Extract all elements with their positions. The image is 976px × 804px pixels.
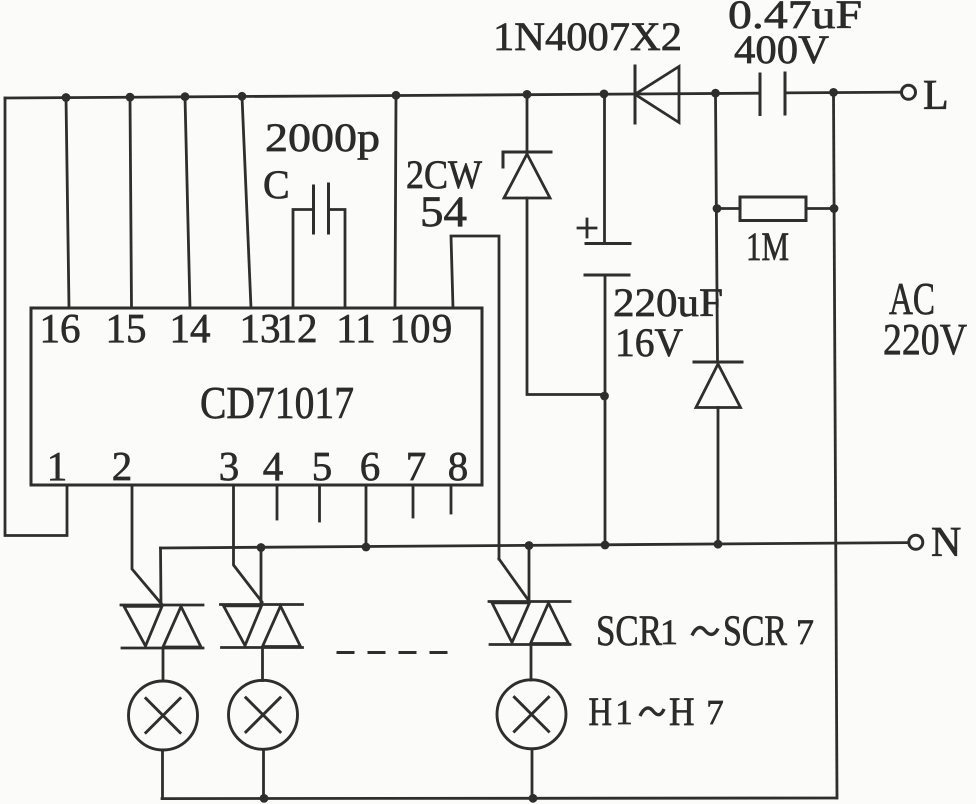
wire pin 4 stub bbox=[276, 485, 279, 519]
node dot zener C2 join bbox=[600, 392, 609, 401]
svg-text:1: 1 bbox=[660, 612, 678, 652]
lamp H2 bbox=[229, 680, 298, 749]
wire resistor R1 right lead bbox=[806, 207, 834, 210]
capacitor C2 220uF top plate bbox=[586, 242, 630, 245]
wire pin 15 to rail bbox=[130, 97, 132, 308]
wire triac 3 to N line bbox=[528, 545, 531, 602]
wire pin 6 to N line bbox=[365, 485, 368, 547]
wire pin 9 hook to triac 3 gate bbox=[451, 236, 499, 559]
terminal L circle bbox=[902, 85, 916, 99]
node dot bottom lamp3 bbox=[529, 794, 538, 803]
terminal N circle bbox=[909, 535, 923, 549]
svg-text:1M: 1M bbox=[746, 224, 789, 269]
node dot rail pin13 bbox=[238, 92, 247, 101]
resistor R1 1M body bbox=[740, 197, 806, 221]
svg-text:15: 15 bbox=[106, 305, 147, 351]
svg-text:220V: 220V bbox=[883, 315, 967, 364]
wire zener bottom to node bbox=[527, 198, 604, 395]
svg-text:400V: 400V bbox=[734, 27, 829, 72]
diode VD3 cathode bar bbox=[694, 361, 742, 364]
wire pin 7 stub bbox=[412, 485, 415, 517]
svg-text:16V: 16V bbox=[615, 320, 683, 365]
wire N line corner down to triac 1 bbox=[159, 548, 162, 605]
wire left feedback loop from rail to pin 1 bbox=[5, 98, 67, 536]
svg-text:1N4007X2: 1N4007X2 bbox=[493, 14, 682, 59]
IC U1 CD71017 body bbox=[31, 308, 482, 485]
wire lamp 1 to bottom rail bbox=[161, 750, 164, 799]
wire resistor R1 left lead bbox=[717, 207, 740, 210]
node dot rail C2 bbox=[600, 90, 609, 99]
svg-text:6: 6 bbox=[360, 443, 381, 489]
lamp H7 bbox=[497, 680, 566, 749]
wire bottom rail bbox=[162, 797, 837, 800]
triac SCR2 bbox=[221, 605, 303, 648]
svg-text:16: 16 bbox=[40, 305, 81, 351]
svg-text:14: 14 bbox=[170, 305, 211, 351]
zener diode VD1 2CW54 cathode bar bbox=[503, 152, 551, 167]
node dot rail pin14 bbox=[181, 92, 190, 101]
wire pin 13 to rail bbox=[242, 96, 251, 308]
svg-text:11: 11 bbox=[336, 305, 375, 351]
lamp H1 bbox=[129, 681, 198, 750]
svg-text:N: N bbox=[931, 520, 961, 566]
wire pin 14 to rail bbox=[185, 97, 190, 308]
svg-text:10: 10 bbox=[390, 305, 431, 351]
diode VD3 triangle bbox=[696, 364, 741, 408]
wire pin 8 stub bbox=[450, 485, 453, 513]
wire diode VD3 to N line bbox=[717, 408, 720, 546]
svg-text:SCR: SCR bbox=[596, 608, 662, 655]
svg-text:2000p: 2000p bbox=[265, 115, 380, 160]
diode VD2 1N4007 triangle bbox=[635, 67, 679, 123]
wire pin 12 to capacitor C bbox=[293, 210, 313, 309]
node dot N pin6 bbox=[362, 543, 371, 552]
wire rail to capacitor C2 bbox=[603, 94, 606, 243]
svg-text:7: 7 bbox=[706, 693, 724, 732]
capacitor C2 220uF bottom plate bbox=[585, 274, 629, 277]
svg-text:13: 13 bbox=[240, 305, 281, 351]
capacitor C2 polarity plus sign bbox=[578, 219, 596, 237]
svg-text:220uF: 220uF bbox=[613, 280, 723, 325]
svg-text:7: 7 bbox=[406, 443, 427, 489]
svg-text:3: 3 bbox=[219, 443, 240, 489]
wire pin 3 to triac 2 gate bbox=[234, 485, 263, 602]
node dot N VD3 bbox=[714, 540, 723, 549]
capacitor C3 0.47uF plates bbox=[759, 74, 762, 115]
wire rail to zener VD1 bbox=[526, 95, 529, 153]
svg-text:H: H bbox=[669, 689, 695, 734]
wire lamp 2 to bottom rail bbox=[262, 750, 265, 799]
wire triac 2 to lamp 2 bbox=[261, 648, 264, 681]
svg-text:C: C bbox=[263, 162, 290, 207]
wire pin 2 to triac 1 gate bbox=[132, 485, 162, 605]
node dot R1 right bbox=[830, 204, 839, 213]
svg-text:54: 54 bbox=[420, 189, 467, 236]
wire rail to resistor R1 and diode VD3 bbox=[716, 93, 718, 362]
svg-text:2: 2 bbox=[112, 443, 133, 489]
node dot rail pin16 bbox=[62, 93, 71, 102]
node dot rail R1 branch bbox=[711, 89, 720, 98]
wire pin 11 to capacitor C bbox=[329, 210, 346, 309]
wire triac 1 to lamp 1 bbox=[162, 648, 165, 681]
wire N line bbox=[161, 543, 909, 548]
svg-text:1: 1 bbox=[47, 443, 68, 489]
svg-text:7: 7 bbox=[796, 612, 814, 652]
node dot rail pin15 bbox=[126, 93, 135, 102]
wire capacitor C2 to N line bbox=[604, 275, 607, 545]
node dot N C2 bbox=[601, 541, 610, 550]
wire top rail right segment to L terminal bbox=[785, 91, 901, 95]
node dot rail right branch bbox=[829, 88, 838, 97]
svg-text:8: 8 bbox=[448, 443, 469, 489]
svg-text:5: 5 bbox=[312, 443, 333, 489]
svg-text:CD71017: CD71017 bbox=[200, 377, 354, 428]
svg-text:12: 12 bbox=[277, 305, 318, 351]
node dot bottom lamp2 bbox=[260, 794, 269, 803]
node dot R1 left bbox=[713, 204, 722, 213]
svg-text:L: L bbox=[923, 73, 949, 119]
wire triac 3 to lamp 3 bbox=[530, 645, 533, 681]
triac SCR7 bbox=[489, 602, 570, 645]
wire triac 3 gate diagonal bbox=[499, 559, 529, 601]
wire lamp 3 to bottom rail bbox=[531, 749, 534, 799]
node dot N triac2 bbox=[257, 543, 266, 552]
wire pin 16 to rail bbox=[66, 98, 69, 308]
capacitor C1 2000p plates bbox=[312, 186, 315, 233]
svg-text:1: 1 bbox=[615, 693, 633, 732]
wire pin 5 stub bbox=[318, 485, 321, 521]
svg-text:SCR: SCR bbox=[723, 608, 787, 655]
wire triac 2 to N line bbox=[260, 548, 263, 604]
node dot N triac3 bbox=[525, 541, 534, 550]
zener diode VD1 triangle bbox=[504, 154, 550, 198]
wire right vertical L branch bbox=[834, 92, 838, 798]
triac SCR1 bbox=[121, 605, 203, 648]
diode VD2 1N4007 cathode bar bbox=[634, 66, 637, 123]
svg-text:4: 4 bbox=[263, 443, 284, 489]
svg-text:9: 9 bbox=[432, 305, 453, 351]
node dot rail zener bbox=[523, 90, 532, 99]
svg-text:H: H bbox=[589, 689, 613, 734]
wire pin 10 to rail bbox=[395, 95, 396, 308]
node dot rail pin10 bbox=[392, 91, 401, 100]
wire top rail left segment (L line) bbox=[5, 93, 760, 98]
wire dashed continuation between triacs bbox=[338, 651, 452, 654]
